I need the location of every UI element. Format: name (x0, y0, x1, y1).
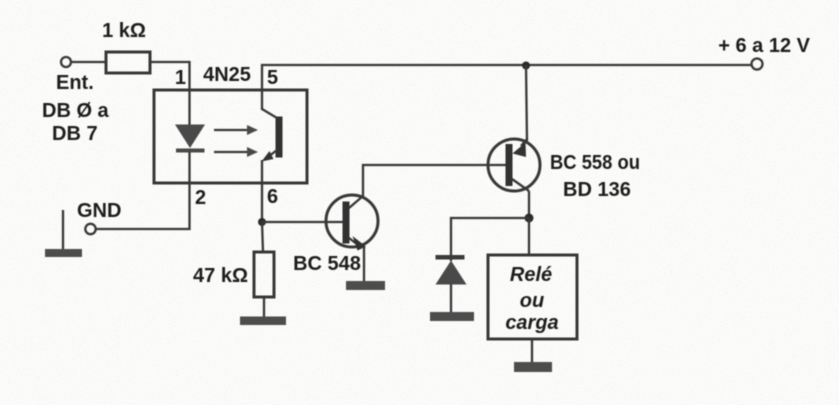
input terminal Ent. (61, 57, 71, 67)
wire relay box to ground (531, 339, 533, 363)
top supply rail wire (262, 65, 752, 110)
phototransistor inside 4N25 (262, 109, 283, 162)
svg-text:BC 558 ou: BC 558 ou (550, 152, 640, 174)
svg-text:1: 1 (175, 67, 186, 89)
svg-text:+ 6 a 12 V: + 6 a 12 V (718, 35, 810, 57)
ground under relay box (514, 362, 552, 372)
wire pin 6 down to node (261, 160, 263, 222)
wire input to resistor (71, 61, 106, 63)
wire node left and down to diode (451, 218, 529, 261)
wire rail down to Q2 emitter (526, 65, 527, 141)
svg-text:DB 7: DB 7 (52, 123, 98, 145)
node pin6 / base Q1 / R2 (258, 218, 266, 226)
svg-text:47 kΩ: 47 kΩ (193, 265, 248, 287)
wire diode to ground (450, 284, 452, 313)
svg-text:2: 2 (195, 187, 206, 209)
wire node down to R2 (262, 222, 263, 252)
svg-text:4N25: 4N25 (203, 64, 251, 86)
wire node down to relay box (528, 218, 530, 255)
GND terminal (85, 224, 95, 234)
svg-text:BD 136: BD 136 (563, 179, 631, 201)
light arrow lower (214, 147, 258, 157)
LED inside 4N25 (175, 125, 205, 153)
resistor R2 47 kOhm (193, 252, 274, 297)
svg-text:Relé: Relé (510, 264, 552, 286)
transistor Q2 BC 558 / BD 136 (488, 139, 640, 201)
wire node to Q1 base (262, 221, 343, 223)
transistor Q1 BC 548 (293, 195, 378, 275)
svg-text:1 kΩ: 1 kΩ (102, 20, 146, 42)
svg-text:BC 548: BC 548 (293, 253, 361, 275)
wire Q1 emitter to ground (363, 246, 365, 282)
light arrow upper (214, 125, 258, 135)
supply terminal circle (752, 59, 763, 70)
wire Q2 collector down to node (528, 191, 530, 218)
wire resistor to pin 1 (150, 62, 190, 125)
node collector / diode / relay (525, 214, 534, 223)
optocoupler U1 4N25 box (154, 64, 307, 183)
wire pin2 LED cathode down to GND wire (96, 152, 190, 229)
wire Q1 collector up and right to Q2 base (363, 165, 506, 197)
node junction on rail (522, 62, 530, 70)
ground under Q1 (346, 281, 385, 290)
svg-text:6: 6 (267, 186, 278, 208)
diode D1 (436, 255, 467, 285)
svg-text:GND: GND (77, 200, 121, 222)
svg-text:carga: carga (505, 312, 558, 334)
svg-text:Ent.: Ent. (56, 72, 94, 94)
svg-text:DB Ø a: DB Ø a (42, 100, 110, 122)
wire R2 to ground (263, 297, 265, 318)
resistor R1 1 kOhm (102, 20, 150, 73)
ground symbol left unconnected (45, 210, 82, 257)
ground under diode (430, 312, 474, 321)
svg-text:ou: ou (520, 290, 544, 312)
svg-text:5: 5 (267, 67, 278, 89)
ground under R2 (240, 317, 286, 326)
relay / load box (488, 255, 577, 339)
